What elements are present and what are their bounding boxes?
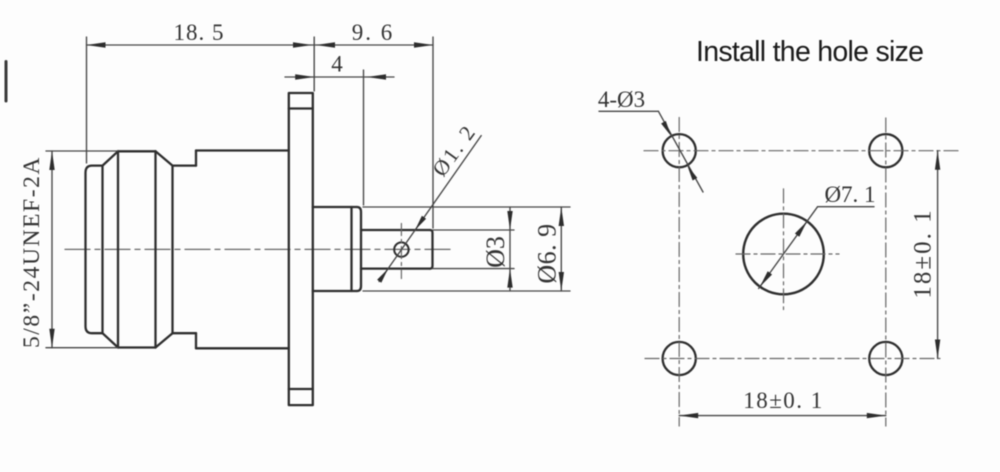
centerlines right view (644, 118, 959, 427)
dim 18+-0.1 bottom (679, 415, 886, 417)
contact pin O3 (361, 230, 433, 269)
hole TL (663, 134, 696, 167)
leader O7.1 (759, 207, 874, 289)
pin hole vertical centerline (400, 224, 402, 279)
dim O1.2 leader (379, 136, 481, 282)
flange plate (289, 93, 313, 405)
big circle O7.1 (743, 214, 824, 295)
pin hole circle O1.2 (394, 242, 408, 256)
hole BR (869, 342, 902, 375)
svg-text:18±0. 1: 18±0. 1 (910, 208, 937, 298)
svg-text:9. 6: 9. 6 (352, 20, 395, 45)
svg-text:Ø6. 9: Ø6. 9 (533, 223, 562, 283)
coupling nut body (86, 151, 197, 347)
dim O3 (433, 207, 515, 291)
hole TR (869, 134, 902, 167)
dim 5/8-24UNEF-2A thread (46, 151, 118, 348)
svg-text:18. 5: 18. 5 (174, 20, 225, 45)
main body cylinder (196, 151, 289, 349)
dim 18+-0.1 right (937, 151, 939, 359)
dim 18.5 (87, 37, 315, 163)
leader 4-O3 (599, 111, 703, 192)
dim 9.6 (314, 37, 433, 228)
svg-text:5/8”-24UNEF-2A: 5/8”-24UNEF-2A (19, 156, 45, 348)
svg-text:4-Ø3: 4-Ø3 (598, 87, 645, 112)
left edge artifact line (5, 62, 8, 102)
hole BL (663, 342, 696, 375)
centerline main axis (65, 248, 455, 250)
svg-text:Ø7. 1: Ø7. 1 (824, 182, 875, 207)
svg-text:Install the hole size: Install the hole size (696, 36, 924, 68)
svg-text:Ø3: Ø3 (481, 236, 510, 268)
svg-text:4: 4 (331, 52, 343, 77)
rear cylinder O6.9 (313, 207, 361, 291)
svg-text:Ø1. 2: Ø1. 2 (428, 120, 481, 181)
svg-text:18±0. 1: 18±0. 1 (743, 388, 824, 413)
dim 4 (285, 70, 394, 205)
dim O6.9 (363, 207, 570, 291)
